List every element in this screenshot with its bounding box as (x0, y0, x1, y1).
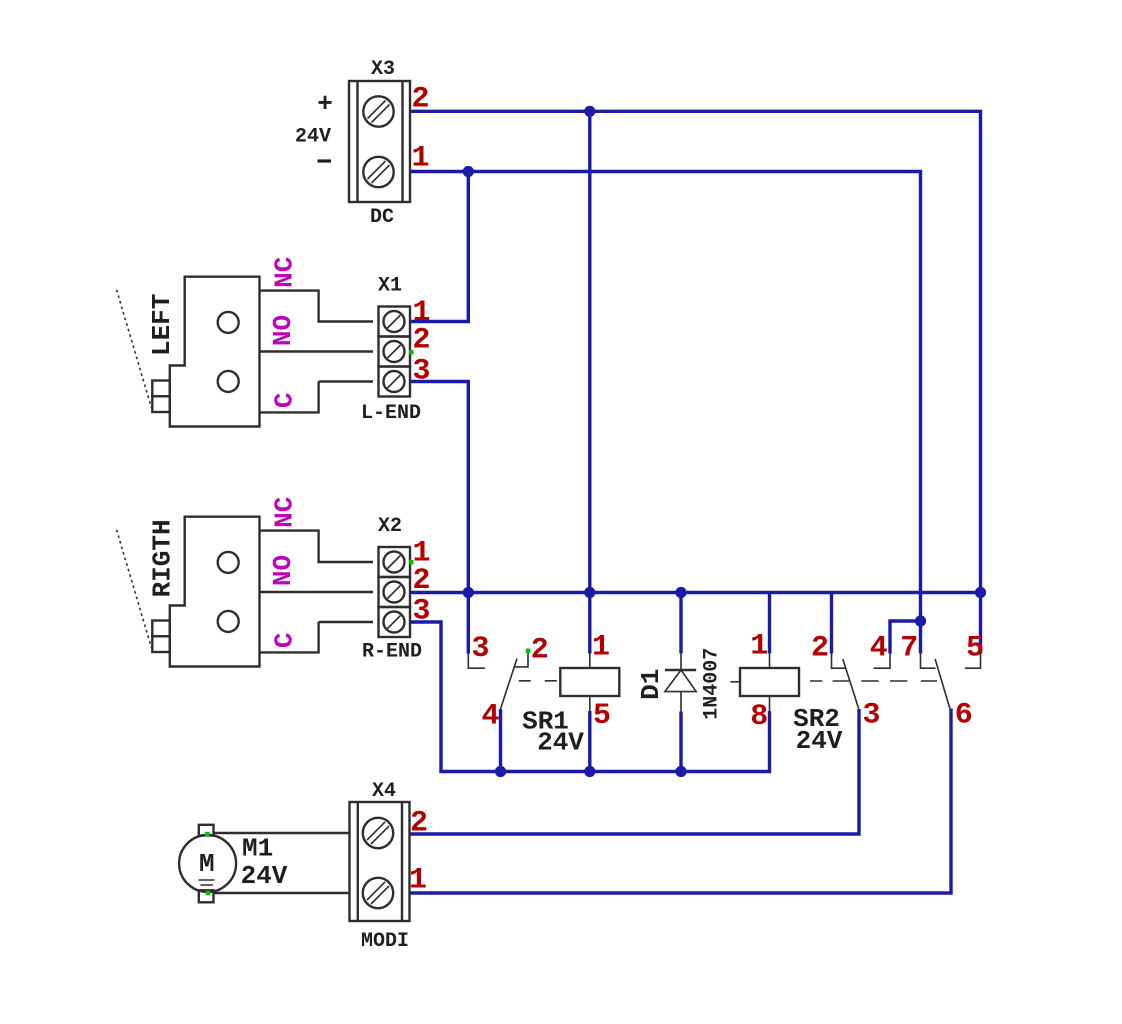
unconnected pin marker SR1-2 (526, 649, 531, 654)
relay SR1 coil (560, 668, 619, 696)
junction on 24V+ rail at x590 (584, 106, 595, 117)
svg-text:6: 6 (955, 698, 973, 732)
svg-text:NO: NO (268, 555, 298, 586)
wire RIGTH C to X2 pin 3 (260, 622, 374, 652)
wire RIGTH NC to X2 pin 1 (260, 531, 374, 562)
relay SR2 contact fixed pin 7 (921, 654, 936, 669)
connector X1 screw 3 (384, 371, 405, 392)
limit switch RIGTH hole upper (218, 552, 239, 573)
relay SR2 contact fixed pin 2 (832, 654, 846, 669)
diode D1 cathode bar (665, 669, 696, 671)
relay SR1 contact fixed pin 3 (468, 654, 485, 669)
connector X2 screw 3 (384, 612, 405, 633)
wire mid rail from X2 pin 2 across relays (410, 591, 981, 594)
wire motor to X4 pin 1 (214, 892, 350, 894)
junction mid rail / D1 column (675, 587, 686, 598)
wire D1 anode to bottom rail (679, 712, 682, 772)
limit switch LEFT body (170, 277, 260, 427)
connector X4 screw pin 1 (363, 878, 393, 908)
limit switch LEFT plunger upper (152, 381, 170, 397)
limit switch RIGTH plunger lower (152, 636, 170, 652)
wire GND branch to SR2 contact pin 4 (890, 621, 921, 654)
junction on GND rail at x468 (463, 166, 474, 177)
svg-text:2: 2 (412, 324, 430, 358)
svg-text:NC: NC (270, 257, 300, 288)
svg-text:24V: 24V (537, 728, 584, 758)
svg-text:1N4007: 1N4007 (700, 648, 723, 720)
connector X2 screw 1 (384, 552, 405, 573)
net marker motor top (205, 832, 210, 837)
relay SR1 contact arm (501, 659, 518, 710)
limit switch RIGTH body (170, 517, 260, 667)
wire net GND from X3 pin 1 to right column (410, 172, 921, 622)
unconnected pin marker X2-1 (409, 560, 414, 565)
wire X2 pin3 to bottom rail to SR2 coil pin 8 (410, 622, 770, 772)
wire X1 pin3 down to mid rail and SR1 contact 3 (410, 382, 468, 654)
limit switch RIGTH hole lower (218, 611, 239, 632)
svg-text:C: C (270, 632, 300, 648)
motor M1 circle (179, 835, 236, 892)
svg-text:2: 2 (411, 83, 429, 117)
junction mid rail / right column (975, 587, 986, 598)
limit switch LEFT hole lower (218, 371, 239, 392)
diode D1 anode stub (680, 692, 682, 712)
svg-text:8: 8 (750, 700, 768, 734)
connector X4 body (350, 802, 410, 921)
connector X3 body (349, 81, 410, 202)
diode D1 cathode stub (680, 654, 682, 671)
svg-text:X2: X2 (378, 515, 402, 538)
svg-text:24V: 24V (796, 726, 843, 756)
wire motor to X4 pin 2 (214, 832, 350, 834)
svg-text:4: 4 (870, 632, 888, 666)
motor M1 dc bars (199, 880, 215, 885)
svg-text:24V: 24V (241, 861, 288, 891)
connector X1 body (379, 307, 411, 397)
svg-text:DC: DC (370, 206, 394, 229)
connector X2 body (379, 547, 411, 637)
junction bottom rail / SR1 pin 5 (584, 766, 595, 777)
svg-text:4: 4 (481, 700, 499, 734)
wire X1 pin1 up to GND rail (410, 172, 468, 322)
svg-text:NC: NC (270, 497, 300, 528)
svg-text:MODI: MODI (361, 930, 409, 953)
relay SR1 coil pin 5 stub (589, 696, 591, 711)
junction mid rail / X1 pin3 column (463, 587, 474, 598)
svg-text:X4: X4 (372, 780, 396, 803)
junction GND column to contacts 4 and 7 (915, 615, 926, 626)
svg-text:X1: X1 (378, 275, 402, 298)
relay SR1 contact fixed pin 2 (515, 653, 529, 667)
limit switch LEFT hole upper (218, 312, 239, 333)
net marker motor bottom (206, 891, 211, 896)
svg-text:1: 1 (750, 630, 768, 664)
connector X3 screw pin 2 (363, 96, 393, 126)
wire GND branch to SR2 contact pin 7 (919, 621, 922, 654)
svg-text:3: 3 (412, 355, 430, 389)
connector X2 screw 2 (384, 582, 405, 603)
wire LEFT NC to X1 pin 1 (260, 291, 374, 322)
relay SR2 contact arm 7-6 (935, 659, 950, 709)
svg-text:1: 1 (592, 631, 610, 665)
limit switch LEFT lever (117, 290, 152, 408)
relay SR2 contact arm 2-3 (843, 659, 859, 709)
motor M1 bottom terminal tab (199, 890, 214, 902)
wire branch SR2 coil pin 1 (768, 593, 771, 654)
svg-text:3: 3 (862, 698, 880, 732)
wire SR1 contact pin 4 to bottom rail (499, 709, 502, 772)
svg-text:24V: 24V (295, 126, 331, 149)
svg-text:X3: X3 (371, 58, 395, 81)
relay SR2 coil pin 1 stub (769, 654, 771, 669)
svg-text:2: 2 (811, 632, 829, 666)
label minus (318, 159, 332, 162)
junction bottom rail / SR1 pin 4 (495, 766, 506, 777)
relay SR2 mechanical link dashes (810, 680, 937, 682)
limit switch RIGTH lever (117, 530, 152, 648)
svg-text:2: 2 (531, 634, 549, 668)
svg-text:1: 1 (409, 864, 427, 898)
wire SR1 coil pin 5 to bottom rail (588, 711, 591, 772)
svg-text:M1: M1 (242, 834, 273, 864)
svg-text:3: 3 (471, 632, 489, 666)
svg-text:+: + (317, 89, 333, 119)
relay SR2 coil left stub (730, 681, 740, 683)
wire SR2 contact pin 6 to X4 pin 1 (410, 709, 952, 894)
svg-text:2: 2 (412, 564, 430, 598)
relay SR2 coil pin 8 stub (769, 696, 771, 711)
wire branch SR2 contact pin 5 (979, 593, 982, 654)
wire net 24V+ branch down to SR1 coil pin 1 (588, 111, 591, 653)
junction bottom rail / D1 anode (675, 766, 686, 777)
svg-text:5: 5 (593, 699, 611, 733)
svg-text:M: M (199, 849, 215, 879)
svg-text:3: 3 (412, 595, 430, 629)
wire LEFT NO to X1 pin 2 (260, 350, 374, 352)
svg-text:RIGTH: RIGTH (148, 519, 178, 597)
svg-text:C: C (270, 392, 300, 408)
wire net 24V+ from X3 pin 2 to right column (410, 111, 981, 592)
relay SR2 contact fixed pin 5 (965, 654, 981, 669)
svg-text:2: 2 (410, 807, 428, 841)
connector X3 screw pin 1 (363, 157, 393, 187)
svg-text:R-END: R-END (362, 641, 422, 664)
svg-text:7: 7 (900, 632, 918, 666)
relay SR2 contact fixed pin 4 (874, 654, 890, 669)
wire branch D1 cathode from mid rail (679, 593, 682, 654)
svg-text:L-END: L-END (361, 402, 421, 425)
svg-text:NO: NO (268, 315, 298, 346)
svg-text:1: 1 (411, 142, 429, 176)
diode D1 triangle (665, 670, 696, 692)
relay SR1 mechanical link dashes (519, 680, 560, 682)
motor M1 top terminal tab (199, 825, 214, 836)
connector X1 screw 1 (384, 311, 405, 332)
svg-text:LEFT: LEFT (147, 294, 177, 356)
limit switch LEFT plunger lower (152, 396, 170, 412)
wire SR2 contact pin 3 to X4 pin 2 (410, 709, 860, 834)
wire RIGTH NO to X2 pin 2 (260, 591, 374, 593)
limit switch RIGTH plunger upper (152, 621, 170, 637)
relay SR1 coil pin 1 stub (589, 654, 591, 669)
connector X4 screw pin 2 (363, 818, 393, 848)
wire LEFT C to X1 pin 3 (260, 382, 374, 413)
wire branch SR2 contact pin 2 (830, 593, 833, 654)
relay SR2 coil (740, 668, 799, 696)
unconnected pin marker X1-2 (409, 350, 414, 355)
svg-text:5: 5 (966, 632, 984, 666)
svg-text:D1: D1 (636, 669, 666, 700)
connector X1 screw 2 (384, 341, 405, 362)
junction mid rail / SR1 coil column (584, 587, 595, 598)
